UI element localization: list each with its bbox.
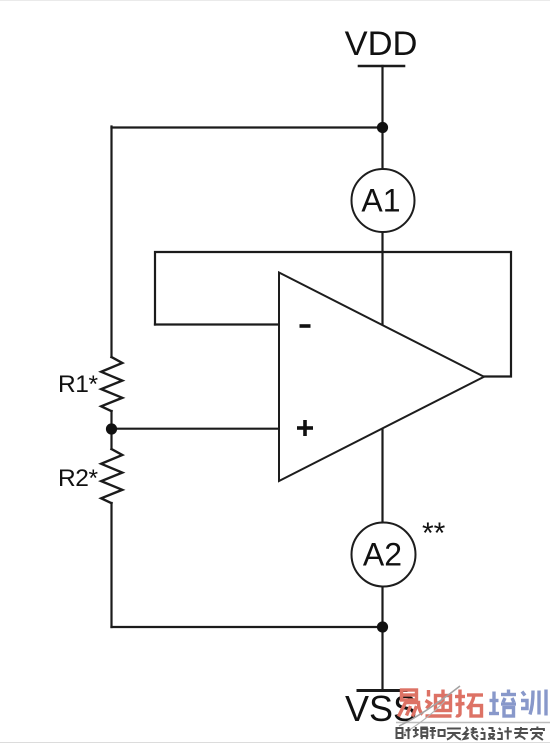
svg-text:R1*: R1* [58,371,99,398]
svg-text:A2: A2 [363,537,402,573]
svg-text:A1: A1 [361,182,400,218]
svg-text:VDD: VDD [345,25,418,63]
svg-text:R2*: R2* [58,465,99,492]
svg-text:**: ** [422,517,446,550]
